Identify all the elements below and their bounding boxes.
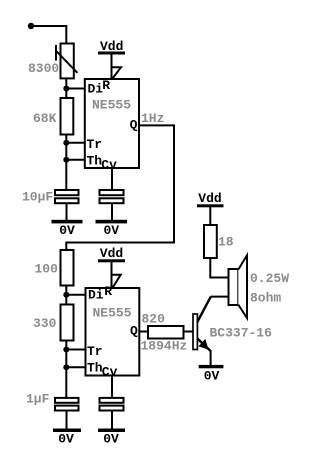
svg-text:18: 18 xyxy=(218,234,234,249)
svg-text:330: 330 xyxy=(33,316,57,331)
svg-text:Cv: Cv xyxy=(102,365,118,380)
svg-text:8ohm: 8ohm xyxy=(250,291,281,306)
svg-text:68K: 68K xyxy=(33,111,57,126)
svg-text:0.25W: 0.25W xyxy=(250,271,289,286)
svg-text:R: R xyxy=(102,78,110,93)
svg-text:100: 100 xyxy=(35,262,59,277)
svg-text:Q: Q xyxy=(130,324,138,339)
svg-text:BC337-16: BC337-16 xyxy=(210,326,273,341)
svg-text:Tr: Tr xyxy=(87,344,103,359)
svg-text:Cv: Cv xyxy=(101,158,117,173)
svg-text:0V: 0V xyxy=(204,368,220,383)
svg-text:10µF: 10µF xyxy=(22,190,53,205)
svg-text:Di: Di xyxy=(88,287,104,302)
svg-text:0V: 0V xyxy=(103,223,119,238)
svg-text:Q: Q xyxy=(130,118,138,133)
svg-text:Th: Th xyxy=(87,153,103,168)
svg-text:820: 820 xyxy=(142,312,166,327)
svg-text:0V: 0V xyxy=(103,432,119,447)
svg-text:NE555: NE555 xyxy=(93,305,132,320)
svg-text:Vdd: Vdd xyxy=(198,191,221,206)
svg-text:Vdd: Vdd xyxy=(100,39,123,54)
svg-text:R: R xyxy=(104,284,112,299)
svg-text:Vdd: Vdd xyxy=(100,246,123,261)
svg-text:1µF: 1µF xyxy=(26,392,50,407)
svg-text:1Hz: 1Hz xyxy=(141,111,164,126)
svg-text:Di: Di xyxy=(88,81,104,96)
svg-text:0V: 0V xyxy=(58,432,74,447)
svg-text:NE555: NE555 xyxy=(92,98,131,113)
svg-text:Tr: Tr xyxy=(87,137,103,152)
svg-text:1894Hz: 1894Hz xyxy=(141,339,188,354)
svg-text:0V: 0V xyxy=(59,223,75,238)
svg-text:Th: Th xyxy=(87,361,103,376)
svg-text:8300: 8300 xyxy=(28,61,59,76)
